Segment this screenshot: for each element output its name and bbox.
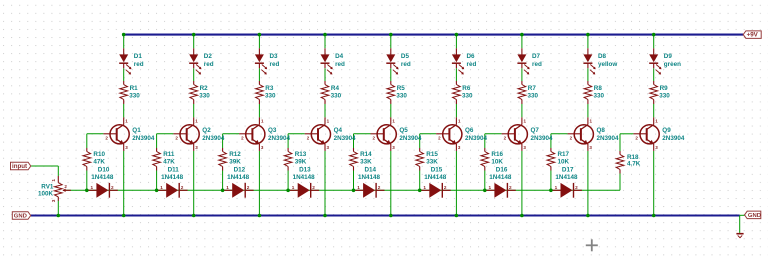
svg-text:2: 2 (509, 185, 512, 190)
svg-text:1N4148: 1N4148 (555, 174, 578, 181)
svg-text:R3: R3 (265, 85, 274, 92)
svg-text:1N4148: 1N4148 (227, 174, 250, 181)
svg-text:330: 330 (462, 92, 473, 99)
svg-text:10K: 10K (491, 159, 503, 166)
svg-text:red: red (335, 61, 345, 68)
svg-text:2N3904: 2N3904 (399, 135, 422, 142)
svg-text:D6: D6 (467, 53, 476, 60)
svg-text:D5: D5 (401, 53, 410, 60)
svg-text:red: red (134, 61, 144, 68)
svg-text:D7: D7 (532, 53, 541, 60)
svg-text:1: 1 (160, 185, 163, 190)
svg-text:D2: D2 (204, 53, 213, 60)
svg-text:D17: D17 (562, 166, 574, 173)
svg-text:yellow: yellow (598, 61, 617, 68)
svg-text:1: 1 (91, 185, 94, 190)
svg-text:1N4148: 1N4148 (293, 174, 316, 181)
svg-text:Q6: Q6 (465, 127, 474, 134)
svg-text:red: red (467, 61, 477, 68)
svg-text:R4: R4 (331, 85, 340, 92)
svg-text:R1: R1 (130, 85, 139, 92)
svg-text:2: 2 (575, 185, 578, 190)
svg-text:2N3904: 2N3904 (531, 135, 554, 142)
svg-text:red: red (270, 61, 280, 68)
svg-text:1: 1 (489, 185, 492, 190)
svg-text:4.7K: 4.7K (627, 161, 641, 168)
svg-text:R6: R6 (462, 85, 471, 92)
svg-text:1: 1 (292, 185, 295, 190)
svg-text:2: 2 (378, 185, 381, 190)
svg-text:GND: GND (14, 214, 27, 220)
svg-text:D8: D8 (598, 53, 607, 60)
svg-text:R15: R15 (426, 151, 438, 158)
svg-text:330: 330 (396, 92, 407, 99)
svg-text:D14: D14 (365, 166, 377, 173)
svg-text:D12: D12 (234, 166, 246, 173)
svg-text:2N3904: 2N3904 (132, 135, 155, 142)
svg-text:47K: 47K (163, 159, 175, 166)
svg-text:D13: D13 (299, 166, 311, 173)
svg-text:330: 330 (528, 92, 539, 99)
svg-text:2N3904: 2N3904 (334, 135, 357, 142)
svg-text:330: 330 (594, 92, 605, 99)
svg-text:10K: 10K (558, 159, 570, 166)
svg-text:33K: 33K (426, 159, 438, 166)
svg-text:R17: R17 (558, 151, 570, 158)
svg-text:100K: 100K (38, 190, 54, 197)
svg-text:Q7: Q7 (531, 127, 540, 134)
svg-text:D1: D1 (134, 53, 143, 60)
svg-text:red: red (401, 61, 411, 68)
svg-text:R12: R12 (229, 151, 241, 158)
svg-text:330: 330 (199, 92, 210, 99)
svg-text:GND: GND (748, 213, 761, 219)
svg-text:330: 330 (129, 92, 140, 99)
svg-text:2N3904: 2N3904 (662, 135, 685, 142)
svg-text:1N4148: 1N4148 (424, 174, 447, 181)
svg-text:Q3: Q3 (268, 127, 277, 134)
svg-text:1: 1 (555, 185, 558, 190)
svg-text:+9V: +9V (747, 32, 759, 39)
svg-text:330: 330 (265, 92, 276, 99)
svg-text:1: 1 (51, 179, 57, 182)
svg-text:R16: R16 (491, 151, 503, 158)
svg-text:D15: D15 (431, 166, 443, 173)
svg-text:2: 2 (444, 185, 447, 190)
svg-text:D9: D9 (664, 53, 673, 60)
svg-text:R5: R5 (397, 85, 406, 92)
svg-text:input: input (12, 163, 27, 170)
svg-text:2: 2 (111, 185, 114, 190)
svg-text:Q9: Q9 (662, 127, 671, 134)
svg-text:1: 1 (423, 185, 426, 190)
svg-text:R9: R9 (660, 85, 669, 92)
svg-text:2: 2 (247, 185, 250, 190)
svg-text:1N4148: 1N4148 (161, 174, 184, 181)
svg-text:39K: 39K (229, 159, 241, 166)
svg-text:D16: D16 (496, 166, 508, 173)
svg-text:red: red (204, 61, 214, 68)
svg-text:2N3904: 2N3904 (597, 135, 620, 142)
svg-text:330: 330 (331, 92, 342, 99)
svg-text:R11: R11 (163, 151, 175, 158)
svg-text:2N3904: 2N3904 (202, 135, 225, 142)
svg-text:2: 2 (181, 185, 184, 190)
svg-text:1N4148: 1N4148 (91, 174, 114, 181)
svg-text:3: 3 (51, 199, 57, 202)
svg-text:R13: R13 (295, 151, 307, 158)
svg-text:2N3904: 2N3904 (465, 135, 488, 142)
svg-text:R14: R14 (360, 151, 372, 158)
svg-text:1N4148: 1N4148 (489, 174, 512, 181)
svg-text:Q1: Q1 (132, 127, 141, 134)
svg-text:R2: R2 (200, 85, 209, 92)
svg-text:1: 1 (226, 185, 229, 190)
svg-text:1: 1 (357, 185, 360, 190)
svg-text:Q5: Q5 (399, 127, 408, 134)
svg-text:Q4: Q4 (334, 127, 343, 134)
svg-text:39K: 39K (295, 159, 307, 166)
svg-text:R10: R10 (93, 151, 105, 158)
svg-text:2N3904: 2N3904 (268, 135, 291, 142)
svg-text:D4: D4 (335, 53, 344, 60)
svg-text:green: green (664, 61, 681, 68)
svg-text:R8: R8 (594, 85, 603, 92)
svg-text:D11: D11 (168, 166, 180, 173)
svg-text:Q8: Q8 (597, 127, 606, 134)
svg-text:Q2: Q2 (202, 127, 211, 134)
svg-text:2: 2 (312, 185, 315, 190)
svg-text:D3: D3 (270, 53, 279, 60)
svg-text:47K: 47K (93, 159, 105, 166)
svg-text:R7: R7 (528, 85, 537, 92)
svg-text:330: 330 (659, 92, 670, 99)
svg-text:D10: D10 (98, 166, 110, 173)
svg-text:red: red (532, 61, 542, 68)
svg-text:1N4148: 1N4148 (358, 174, 381, 181)
svg-text:33K: 33K (360, 159, 372, 166)
